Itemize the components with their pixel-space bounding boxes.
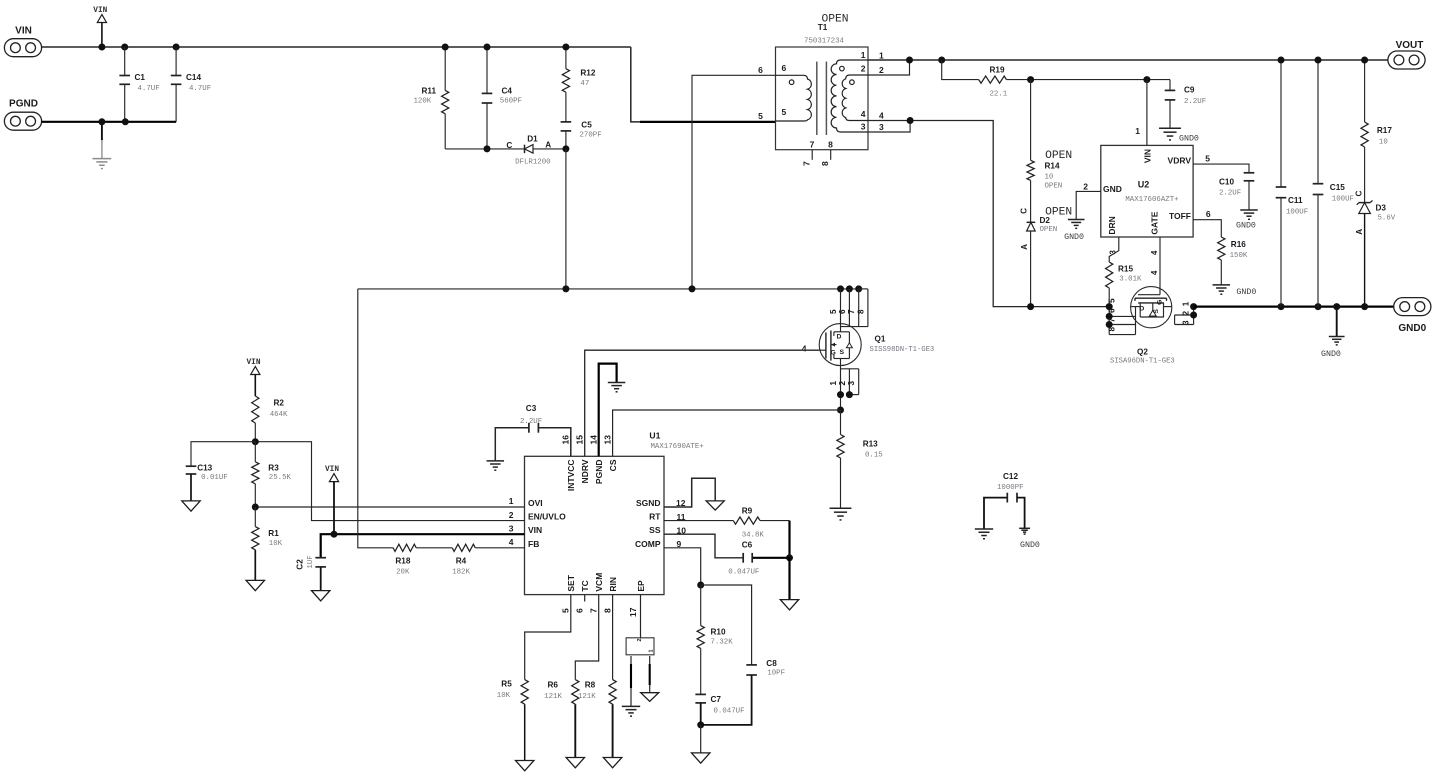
svg-text:3: 3 <box>879 122 884 132</box>
ground at R5 <box>516 761 534 771</box>
svg-text:R13: R13 <box>863 439 878 448</box>
svg-text:2: 2 <box>879 65 884 75</box>
U1 pin 15 NDRV wire to Q1 gate <box>574 350 819 456</box>
svg-text:GND0: GND0 <box>1236 222 1256 231</box>
junction pins3-4 <box>907 117 914 124</box>
U1 pin 13 CS wire <box>602 410 840 456</box>
svg-text:5: 5 <box>782 107 787 117</box>
ground GND0 at R16 <box>1213 285 1257 297</box>
svg-text:4: 4 <box>509 537 514 547</box>
svg-text:FB: FB <box>528 539 539 549</box>
ground GND0 at C10 <box>1236 210 1258 231</box>
ground at C2 <box>312 591 330 601</box>
svg-text:D2: D2 <box>1040 216 1051 225</box>
svg-text:5: 5 <box>1108 298 1117 303</box>
svg-text:5.6V: 5.6V <box>1378 215 1396 223</box>
resistor R6 121K <box>544 680 579 758</box>
resistor R15 3.01K <box>1106 262 1142 307</box>
svg-text:GND: GND <box>1103 184 1122 194</box>
resistor R10 7.32K <box>697 585 733 694</box>
svg-text:MAX17690ATE+: MAX17690ATE+ <box>651 443 705 451</box>
U1 pin 14 PGND wire <box>588 364 616 457</box>
svg-text:U2: U2 <box>1138 179 1150 189</box>
svg-text:5: 5 <box>758 111 763 121</box>
svg-text:560PF: 560PF <box>500 98 522 106</box>
svg-text:5: 5 <box>829 309 838 314</box>
capacitor C14 4.7UF <box>171 47 211 122</box>
svg-text:47: 47 <box>580 80 589 88</box>
svg-text:G: G <box>1157 300 1164 305</box>
svg-text:R16: R16 <box>1231 240 1246 249</box>
resistor R2 464K <box>252 396 288 442</box>
svg-text:34.8K: 34.8K <box>742 531 765 539</box>
svg-text:D1: D1 <box>527 135 538 144</box>
svg-text:OPEN: OPEN <box>1045 183 1063 191</box>
wire C6 node to ground <box>788 558 790 600</box>
svg-text:R8: R8 <box>585 681 596 690</box>
wire T1 pin4 to secondary return <box>868 121 1109 307</box>
U2 pin 6 TOFF wire <box>1193 209 1221 237</box>
U2 pin 4 GATE wire to Q2 <box>1150 237 1160 295</box>
svg-text:VIN: VIN <box>93 7 107 15</box>
svg-text:7: 7 <box>802 161 812 166</box>
svg-text:SISA96DN-T1-GE3: SISA96DN-T1-GE3 <box>1110 358 1175 366</box>
svg-text:6: 6 <box>574 608 584 613</box>
svg-text:EP: EP <box>636 580 646 592</box>
junction drain/T1 pin6 <box>689 285 696 292</box>
svg-text:8: 8 <box>602 608 612 613</box>
capacitor C5 270PF <box>561 120 602 149</box>
U1 pin 5 SET wire <box>525 595 571 680</box>
wire PGND rail <box>41 121 176 123</box>
wire EP to signal ground <box>649 656 651 693</box>
junction rail/R11 <box>442 44 449 51</box>
svg-text:121K: 121K <box>544 693 562 701</box>
svg-text:15: 15 <box>574 435 584 445</box>
ground GND0 stub <box>1321 307 1345 359</box>
svg-text:SS: SS <box>649 525 661 535</box>
ground at EP (signal) <box>641 693 659 702</box>
resistor R5 10K <box>497 680 529 761</box>
junction D1/C5 <box>562 145 569 152</box>
svg-text:GND0: GND0 <box>1236 288 1256 297</box>
svg-text:3: 3 <box>509 523 514 533</box>
junction GND0/gnd stub <box>1333 303 1340 310</box>
svg-text:6: 6 <box>758 65 763 75</box>
junction VIN/C14 <box>173 44 180 51</box>
junction Q1 source/CS <box>837 407 844 414</box>
capacitor C2 1UF <box>296 555 326 590</box>
svg-text:COMP: COMP <box>635 539 661 549</box>
U2 pin 3 DRN wire to R15 <box>1109 237 1119 262</box>
svg-text:3.01K: 3.01K <box>1119 275 1142 283</box>
svg-text:R18: R18 <box>395 556 410 565</box>
svg-text:U1: U1 <box>649 430 660 440</box>
svg-text:0.047UF: 0.047UF <box>714 707 745 715</box>
svg-text:4: 4 <box>1150 250 1159 255</box>
ground at EP (earth) <box>622 705 640 707</box>
svg-text:GATE: GATE <box>1150 211 1160 234</box>
port VOUT <box>1388 40 1425 69</box>
svg-text:VCM: VCM <box>594 573 604 592</box>
junction pins1-2 <box>906 57 913 64</box>
svg-text:3: 3 <box>1181 320 1190 325</box>
svg-text:2: 2 <box>838 381 847 386</box>
capacitor C10 2.2UF <box>1219 173 1254 210</box>
svg-text:1: 1 <box>829 381 838 386</box>
power flag VIN at U1 <box>325 466 339 534</box>
svg-text:5: 5 <box>1205 154 1210 164</box>
junction rail/R12 <box>562 44 569 51</box>
svg-text:DFLR1200: DFLR1200 <box>515 159 550 167</box>
svg-text:1UF: 1UF <box>307 555 315 568</box>
junction GND0/D3 <box>1361 303 1368 310</box>
svg-text:GND0: GND0 <box>1398 323 1426 334</box>
op-amp U1 MAX17690ATE+ (controller) <box>525 430 705 594</box>
capacitor C15 100UF <box>1313 60 1354 307</box>
svg-text:4: 4 <box>879 111 884 121</box>
svg-text:7.32K: 7.32K <box>711 638 734 646</box>
junction R19/R14 <box>1027 76 1034 83</box>
ground at C3 <box>487 460 505 462</box>
resistor R8 121K <box>578 680 616 758</box>
wire T1 pin2 join <box>868 60 910 75</box>
svg-text:4.7UF: 4.7UF <box>138 85 160 93</box>
svg-text:GND0: GND0 <box>1064 233 1084 242</box>
wire drain rail <box>358 288 859 290</box>
svg-text:C: C <box>1020 208 1029 214</box>
svg-text:C13: C13 <box>197 463 212 472</box>
svg-text:SET: SET <box>566 574 576 591</box>
svg-text:R3: R3 <box>268 463 279 472</box>
svg-text:NDRV: NDRV <box>580 459 590 483</box>
U1 pin 2 EN/UVLO wire <box>255 442 524 521</box>
transformer T1 750317234 (OPEN) <box>776 14 869 167</box>
junction C7/C8 <box>697 721 704 728</box>
resistor R11 120K <box>414 47 449 149</box>
svg-text:R19: R19 <box>990 65 1005 74</box>
svg-text:4: 4 <box>802 344 807 354</box>
ground at PGND pin <box>608 382 626 384</box>
svg-text:4.7UF: 4.7UF <box>189 85 211 93</box>
svg-text:T1: T1 <box>818 23 828 32</box>
svg-text:C8: C8 <box>766 659 777 668</box>
svg-text:RIN: RIN <box>608 577 618 592</box>
svg-text:2: 2 <box>637 638 643 641</box>
svg-text:2.2UF: 2.2UF <box>1184 98 1206 106</box>
svg-text:10K: 10K <box>497 692 511 700</box>
svg-text:C6: C6 <box>742 540 753 549</box>
svg-text:7: 7 <box>1108 318 1117 323</box>
capacitor C9 2.2UF <box>1165 80 1206 129</box>
wire R9 to ground <box>788 521 790 558</box>
wire EP to grounds <box>630 656 632 706</box>
svg-text:6: 6 <box>838 309 847 314</box>
svg-text:INTVCC: INTVCC <box>566 460 576 492</box>
svg-text:12: 12 <box>676 498 686 508</box>
svg-text:VIN: VIN <box>1142 149 1152 163</box>
capacitor C4 560PF <box>482 47 522 149</box>
svg-text:CS: CS <box>608 459 618 471</box>
svg-text:2: 2 <box>1083 181 1088 191</box>
svg-text:2.2UF: 2.2UF <box>520 418 542 426</box>
resistor R18 20K <box>358 289 452 576</box>
U1 pin 12 SGND wire <box>664 478 715 508</box>
capacitor C8 10PF <box>701 585 785 725</box>
svg-text:R14: R14 <box>1045 162 1060 171</box>
svg-text:14: 14 <box>588 435 598 445</box>
svg-text:150K: 150K <box>1230 252 1248 260</box>
svg-text:D: D <box>837 333 842 340</box>
junction D2/secondary return <box>1027 303 1034 310</box>
svg-text:R12: R12 <box>580 69 595 78</box>
wire VIN rail to T1 pin 5 <box>631 47 776 122</box>
svg-text:3: 3 <box>861 122 866 132</box>
svg-text:20K: 20K <box>396 568 410 576</box>
junction rail/C4 <box>484 44 491 51</box>
svg-text:7: 7 <box>588 608 598 613</box>
junction COMP/R10/C8 <box>697 582 704 589</box>
wire GND0 rail <box>1194 306 1394 308</box>
svg-text:9: 9 <box>677 539 682 549</box>
svg-text:182K: 182K <box>452 568 470 576</box>
svg-text:1: 1 <box>1181 301 1190 306</box>
svg-text:C4: C4 <box>502 86 513 95</box>
svg-text:7: 7 <box>847 309 856 314</box>
svg-text:R2: R2 <box>274 399 285 408</box>
svg-text:G: G <box>831 349 836 356</box>
Q1 source pins 1-3 bracket <box>829 366 859 410</box>
svg-text:100UF: 100UF <box>1332 196 1354 204</box>
resistor R19 22.1 <box>942 60 1170 98</box>
svg-text:7: 7 <box>810 139 815 149</box>
svg-text:S: S <box>840 349 845 356</box>
svg-text:GND0: GND0 <box>1321 350 1341 359</box>
svg-text:8: 8 <box>1108 327 1117 332</box>
wire snubber to drain rail <box>565 149 567 289</box>
svg-text:TOFF: TOFF <box>1169 211 1191 221</box>
power flag VIN at R2 <box>246 359 260 396</box>
junction R2/R3 <box>252 438 259 445</box>
U1 pin 7 VCM wire <box>575 595 598 680</box>
U1 pin 17 EP wire <box>628 595 641 638</box>
net tie at EP <box>626 638 654 655</box>
svg-text:C2: C2 <box>296 559 305 570</box>
U2 pin 5 VDRV wire <box>1193 154 1249 173</box>
svg-text:A: A <box>1020 244 1029 250</box>
port GND0 <box>1394 298 1431 334</box>
svg-text:C7: C7 <box>711 695 722 704</box>
wire T1 pin6 to drain node <box>692 75 776 289</box>
svg-text:1: 1 <box>879 50 884 60</box>
svg-text:C10: C10 <box>1219 178 1234 187</box>
capacitor C12 1000PF (Y-cap) <box>984 472 1025 529</box>
svg-text:1000PF: 1000PF <box>997 484 1024 492</box>
ground at C13 <box>182 501 200 511</box>
resistor R1 10K <box>252 507 283 580</box>
wire T1 pin1 to VOUT rail <box>868 59 1388 61</box>
svg-text:2: 2 <box>861 64 866 74</box>
svg-text:VIN: VIN <box>325 466 339 474</box>
U1 pin 9 COMP wire <box>664 539 701 585</box>
svg-text:13: 13 <box>602 435 612 445</box>
svg-text:D3: D3 <box>1376 204 1387 213</box>
junction R9/C6 <box>786 554 793 561</box>
svg-text:SGND: SGND <box>636 498 661 508</box>
svg-text:270PF: 270PF <box>580 132 602 140</box>
U1 pin 8 RIN wire <box>602 595 612 680</box>
svg-text:22.1: 22.1 <box>990 90 1008 98</box>
U1 pin 3 VIN wire <box>321 523 525 557</box>
svg-text:EN/UVLO: EN/UVLO <box>528 512 566 522</box>
wire to comp ground <box>700 725 702 753</box>
svg-text:VIN: VIN <box>246 359 260 367</box>
svg-text:C12: C12 <box>1003 472 1018 481</box>
junction VIN/C1 <box>121 44 128 51</box>
capacitor C13 0.01UF <box>186 442 256 501</box>
svg-text:1: 1 <box>861 50 866 60</box>
svg-text:GND0: GND0 <box>1020 541 1040 550</box>
svg-text:VOUT: VOUT <box>1396 40 1424 51</box>
svg-text:10: 10 <box>1045 173 1054 181</box>
capacitor C3 2.2UF <box>495 404 571 461</box>
svg-text:10K: 10K <box>269 540 283 548</box>
junction VOUT rail/R19 <box>938 57 945 64</box>
svg-text:R1: R1 <box>268 529 279 538</box>
junction R3/R1/OVI <box>252 504 259 511</box>
Q2 drain pins 5-8 bracket <box>1106 298 1136 335</box>
svg-text:0.047UF: 0.047UF <box>728 568 759 576</box>
svg-text:8: 8 <box>857 309 866 314</box>
U1 pin 11 RT wire + resistor R9 34.8K <box>664 506 790 539</box>
svg-text:120K: 120K <box>414 97 432 105</box>
ground at R1 <box>246 580 264 590</box>
transistor Q1 SISS98DN-T1-GE3 (primary switch) <box>819 324 934 366</box>
svg-text:4: 4 <box>861 109 866 119</box>
Q1 drain pins 5-8 bracket <box>829 285 868 326</box>
svg-text:C14: C14 <box>186 73 201 82</box>
capacitor C1 4.7UF <box>119 47 159 122</box>
svg-text:11: 11 <box>677 512 686 522</box>
diode D1 DFLR1200 <box>445 135 566 167</box>
svg-text:C15: C15 <box>1330 183 1345 192</box>
svg-text:C5: C5 <box>581 120 592 129</box>
svg-text:C9: C9 <box>1184 86 1195 95</box>
svg-text:17: 17 <box>628 607 638 617</box>
ground at R9/C6 <box>780 600 798 610</box>
svg-text:750317234: 750317234 <box>804 38 844 46</box>
ground GND0 at C9 <box>1159 128 1199 143</box>
ground at C12 primary <box>975 528 993 530</box>
junction GND0/C11 <box>1278 303 1285 310</box>
U2 pin 1 VIN wire <box>1135 80 1147 146</box>
ground GND0 at C12 secondary <box>1019 528 1040 550</box>
svg-text:C1: C1 <box>135 73 146 82</box>
ground at C7 <box>692 753 710 763</box>
junction VIN flag/pin3 <box>331 531 338 538</box>
resistor R12 47 <box>562 47 596 122</box>
svg-text:3: 3 <box>847 381 856 386</box>
resistor R16 150K <box>1218 237 1248 285</box>
svg-text:R6: R6 <box>548 681 559 690</box>
svg-text:1: 1 <box>1135 126 1140 136</box>
svg-text:SISS98DN-T1-GE3: SISS98DN-T1-GE3 <box>870 346 935 354</box>
svg-text:4: 4 <box>1150 270 1159 275</box>
transistor Q2 SISA96DN-T1-GE3 (sync rectifier) <box>1110 287 1175 366</box>
svg-text:MAX17606AZT+: MAX17606AZT+ <box>1125 196 1179 204</box>
svg-text:16: 16 <box>561 435 571 445</box>
svg-text:R4: R4 <box>456 556 467 565</box>
svg-text:R10: R10 <box>711 628 726 637</box>
junction PGND/gnd <box>98 118 105 125</box>
junction R19/U2 VIN <box>1143 76 1150 83</box>
svg-text:121K: 121K <box>578 693 596 701</box>
ground at R8 <box>603 758 621 768</box>
capacitor C7 0.047UF <box>695 694 744 725</box>
junction VOUT/C15 <box>1315 57 1322 64</box>
svg-text:25.5K: 25.5K <box>269 474 292 482</box>
port PGND <box>4 99 41 131</box>
svg-text:VIN: VIN <box>528 525 542 535</box>
diode D3 5.6V zener <box>1355 191 1396 307</box>
svg-text:OPEN: OPEN <box>1040 226 1058 234</box>
svg-text:R11: R11 <box>422 86 437 95</box>
junction D1/C4 <box>484 145 491 152</box>
svg-text:C3: C3 <box>526 404 537 413</box>
op-amp U2 MAX17606AZT+ (gate driver) <box>1101 145 1193 237</box>
svg-text:464K: 464K <box>270 411 288 419</box>
svg-text:S: S <box>1153 309 1160 314</box>
svg-text:8: 8 <box>828 139 833 149</box>
svg-text:DRN: DRN <box>1107 216 1117 234</box>
junction VOUT/C11 <box>1278 57 1285 64</box>
svg-text:5: 5 <box>561 608 571 613</box>
Q2 source pins 1-3 bracket <box>1175 301 1198 325</box>
junction PGND/C1 <box>122 118 129 125</box>
svg-text:3: 3 <box>1109 250 1118 255</box>
svg-text:6: 6 <box>1108 308 1117 313</box>
svg-text:R15: R15 <box>1118 264 1133 273</box>
junction drain/snubber <box>562 285 569 292</box>
U2 pin 2 GND wire <box>1064 181 1101 242</box>
resistor R4 182K <box>452 544 524 576</box>
svg-text:0.01UF: 0.01UF <box>201 474 228 482</box>
svg-text:10PF: 10PF <box>767 669 785 677</box>
junction VOUT/R17 <box>1361 57 1368 64</box>
resistor R13 0.15 <box>837 410 883 508</box>
port VIN <box>4 26 41 57</box>
svg-text:VIN: VIN <box>15 26 32 37</box>
svg-text:2: 2 <box>1181 311 1190 316</box>
U1 pin 10 SS wire + capacitor C6 0.047UF <box>664 525 790 576</box>
svg-text:GND0: GND0 <box>1179 134 1199 143</box>
ground at R6 <box>566 758 584 768</box>
wire T1 pin3 join <box>868 121 910 133</box>
U1 pin 1 OVI wire <box>255 496 524 507</box>
svg-text:8: 8 <box>820 161 830 166</box>
wire VIN rail from VIN connector <box>41 46 630 48</box>
svg-text:PGND: PGND <box>9 99 38 110</box>
power flag VIN (input) <box>93 7 107 47</box>
svg-text:R9: R9 <box>742 506 753 515</box>
svg-text:6: 6 <box>782 63 787 73</box>
U1 pin 6 TC stub <box>574 595 584 613</box>
svg-text:R5: R5 <box>501 680 512 689</box>
svg-text:VDRV: VDRV <box>1168 156 1192 166</box>
svg-text:100UF: 100UF <box>1286 209 1308 217</box>
junction GND0/C15 <box>1315 303 1322 310</box>
svg-text:D: D <box>1139 306 1144 313</box>
